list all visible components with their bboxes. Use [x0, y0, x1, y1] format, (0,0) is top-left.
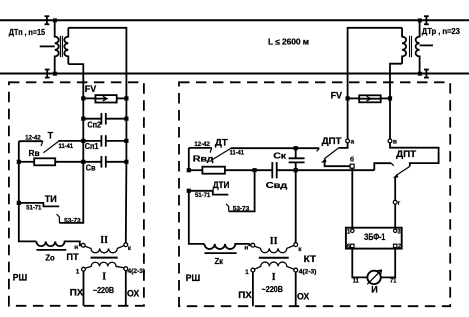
junction dot DTr bottom rail: [418, 72, 422, 76]
contact DPT right arm: [396, 166, 410, 175]
capacitor Sk: [289, 148, 305, 170]
svg-text:ТИ: ТИ: [45, 194, 57, 204]
wire left branch Rv to TI: [18, 162, 20, 203]
junction dot DTp bottom rail: [53, 72, 57, 76]
arrester FV right arrow: [359, 96, 381, 101]
transformer DTr center tap: [420, 44, 433, 46]
svg-text:ЗБФ-1: ЗБФ-1: [364, 232, 385, 242]
junction dot DTp top rail: [53, 18, 57, 22]
wire arm to g terminal: [394, 178, 396, 201]
wire Svd row jog to DPT right fixed: [374, 163, 391, 170]
wire left column Sp2 to Sp1: [82, 119, 84, 141]
svg-text:~220В: ~220В: [262, 285, 284, 294]
wire FV right row right: [381, 97, 390, 99]
svg-text:ПТ: ПТ: [66, 252, 79, 262]
transformer PT winding I: [85, 262, 124, 268]
svg-text:II: II: [100, 235, 108, 246]
transformer KT terminal n: [251, 243, 255, 247]
insulated joint left bottom: [45, 69, 50, 78]
wire left branch TI to Zo: [19, 203, 37, 242]
arrester FV left box: [95, 95, 116, 102]
wire DTr secondary top to left column: [348, 28, 403, 99]
svg-text:11: 11: [353, 279, 360, 285]
contact DPT right common route: [390, 143, 439, 167]
svg-text:ПХ: ПХ: [70, 288, 83, 298]
svg-text:КТ: КТ: [304, 254, 317, 264]
rail bottom: [0, 73, 469, 75]
svg-text:ОХ: ОХ: [297, 292, 309, 302]
contact TI arm: [19, 203, 59, 207]
svg-text:12-42: 12-42: [194, 142, 210, 148]
junction dot Rvd left: [187, 168, 191, 172]
wire PT k to Sv row: [125, 162, 128, 243]
contact T wire left: [19, 140, 43, 142]
svg-text:11-41: 11-41: [59, 144, 74, 150]
junction dot DTr top rail: [418, 18, 422, 22]
wire left branch T to Rv: [18, 141, 20, 162]
contact DT fixed tip: [210, 148, 212, 153]
junction dot Sp1 left: [81, 139, 85, 143]
transformer KT core: [259, 257, 289, 259]
svg-text:Св: Св: [86, 163, 96, 172]
wire DTp secondary top to right column: [68, 28, 126, 99]
insulated joint right top: [424, 16, 429, 25]
wire TI lower terminal to Sv row: [59, 164, 83, 223]
transformer DTp core: [60, 36, 62, 57]
ZBF terminal 1 circle: [351, 229, 354, 232]
capacitor Sp2: [83, 113, 126, 125]
transformer PT winding II: [85, 246, 124, 253]
svg-text:И: И: [371, 285, 377, 295]
transformer PT core: [91, 257, 118, 259]
transformer KT terminal 1: [251, 268, 255, 272]
contact DT arm: [212, 148, 231, 159]
wire left branch DTI to Zk: [189, 191, 205, 244]
wire left column FV to Sp2: [82, 98, 84, 118]
svg-text:51-71: 51-71: [26, 206, 42, 212]
enclosure RSh left (dashed): [9, 82, 144, 305]
contact DTI junction dot: [187, 189, 191, 193]
capacitor Svd: [272, 162, 374, 178]
resistor Rv: [19, 158, 58, 165]
insulated joint left top: [45, 16, 50, 25]
junction dot Svd right: [294, 168, 298, 172]
svg-text:~220В: ~220В: [93, 286, 114, 295]
svg-text:1: 1: [245, 269, 249, 276]
transformer DTp primary winding: [55, 20, 59, 73]
contact DPT left arm: [324, 148, 339, 159]
wire b column to ZBF: [351, 168, 353, 228]
svg-text:Rвд: Rвд: [193, 155, 214, 164]
svg-text:71: 71: [390, 279, 397, 285]
svg-text:ДПТ: ДПТ: [396, 149, 416, 159]
wire right column Sp2 to Sp1: [125, 119, 127, 141]
ZBF terminal 3 circle: [394, 229, 397, 232]
svg-text:г: г: [398, 200, 401, 207]
svg-text:ДТр , n=23: ДТр , n=23: [422, 27, 461, 36]
svg-text:ДТИ: ДТИ: [213, 180, 230, 190]
junction dot Svd left: [253, 168, 257, 172]
svg-text:ПХ: ПХ: [238, 290, 251, 300]
svg-text:Rв: Rв: [29, 149, 40, 158]
junction dot Sp2 right: [124, 117, 128, 121]
arrester FV right box: [359, 95, 381, 102]
capacitor Sv: [55, 156, 126, 168]
svg-text:FV: FV: [331, 90, 342, 100]
terminal a circle: [346, 139, 350, 143]
svg-text:Zо: Zо: [45, 254, 55, 263]
transformer DTr core: [410, 36, 412, 57]
svg-text:1: 1: [76, 268, 80, 275]
junction dot FV row right: [124, 96, 128, 100]
junction dot Sv right: [124, 160, 128, 164]
svg-text:б: б: [350, 156, 354, 164]
svg-text:FV: FV: [85, 84, 96, 94]
contact DPT right fixed tip: [391, 163, 394, 166]
transformer PT terminal 1: [82, 267, 86, 271]
inductor Zo core line: [36, 249, 66, 251]
transformer DTp secondary winding: [64, 28, 68, 64]
transformer DTp center tap: [40, 45, 55, 47]
ZBF terminal 2 square: [394, 244, 397, 247]
indicator lamp arrow: [367, 270, 381, 284]
transformer PT terminal 4: [124, 267, 128, 271]
indicator lamp I circle: [367, 271, 380, 284]
wire PX right: [252, 272, 254, 306]
wire DTr secondary bottom to right column: [390, 64, 402, 99]
junction dot Sp2 left: [81, 117, 85, 121]
contact DPT left fixed tip: [317, 148, 320, 151]
contact DTI arm: [189, 191, 229, 195]
svg-text:Свд: Свд: [266, 181, 288, 190]
svg-text:II: II: [270, 236, 278, 247]
junction dot Sv left: [81, 160, 85, 164]
wire left branch DT to Rvd: [188, 148, 190, 170]
contact T fixed tip: [41, 141, 43, 146]
inductor Zk: [204, 244, 250, 249]
rail top: [0, 19, 469, 21]
wire KT k up to Svd row: [295, 170, 297, 243]
transformer PT terminal k: [124, 243, 128, 247]
transformer KT winding II: [255, 246, 294, 253]
contact T arm: [43, 141, 58, 152]
terminal b square: [350, 164, 354, 168]
inductor Zk core line: [204, 252, 236, 254]
contact DPT left common route: [339, 143, 348, 148]
wire right column Sp1 to Sv: [125, 141, 127, 162]
svg-text:L ≤ 2600 м: L ≤ 2600 м: [268, 37, 309, 46]
svg-text:ДТ: ДТ: [215, 138, 228, 148]
svg-text:Сп2: Сп2: [87, 121, 101, 130]
wire PX left: [83, 271, 85, 306]
svg-text:в: в: [393, 139, 397, 146]
contact TI fixed tip: [57, 214, 60, 223]
svg-text:Zк: Zк: [215, 257, 224, 266]
transformer KT terminal 4: [294, 268, 298, 272]
wire ZBF 2 to lamp: [381, 248, 395, 278]
svg-text:а: а: [351, 139, 355, 146]
svg-text:12-42: 12-42: [25, 136, 41, 142]
transformer KT winding I: [255, 262, 294, 269]
junction dot Sp1 right: [124, 139, 128, 143]
transformer DTr primary winding: [416, 20, 420, 73]
contact DPT left arrowhead: [321, 158, 327, 162]
filter block ZBF-1: [346, 228, 402, 249]
wire column a down to DPT: [347, 98, 349, 139]
wire FV row left: [83, 97, 95, 99]
enclosure RSh right (dashed): [179, 82, 450, 306]
svg-text:к: к: [298, 246, 302, 253]
wire OX right: [295, 272, 297, 306]
wire OX left: [125, 271, 127, 306]
svg-text:РШ: РШ: [186, 273, 200, 283]
svg-text:н: н: [244, 245, 248, 252]
ZBF terminal 6 square: [351, 244, 354, 247]
svg-text:Т: Т: [48, 131, 54, 141]
svg-text:Ск: Ск: [273, 151, 286, 160]
contact DPT right arrowhead: [393, 174, 399, 178]
wire FV row right: [117, 97, 127, 99]
insulated joint right bottom: [424, 69, 429, 78]
wire DTI lower terminal to Svd row: [229, 172, 255, 211]
transformer DTr secondary winding: [402, 28, 406, 64]
inductor Zo: [36, 241, 81, 246]
junction dot FV row left: [81, 96, 85, 100]
svg-text:I: I: [272, 272, 276, 283]
svg-text:4(2-3): 4(2-3): [299, 269, 317, 275]
junction dot Sk top: [294, 146, 298, 150]
svg-text:ОХ: ОХ: [127, 288, 139, 298]
svg-text:к: к: [128, 245, 132, 252]
wire b to closed contact: [325, 162, 351, 167]
wire left column Sp1 to Sv: [82, 141, 84, 162]
svg-text:51-71: 51-71: [195, 193, 211, 199]
contact DT wire left: [189, 147, 212, 149]
wire DTp secondary bottom to left column: [68, 64, 83, 98]
wire 11-41 row to DPT: [231, 147, 319, 149]
svg-text:ДПТ: ДПТ: [322, 136, 342, 146]
transformer PT terminal n: [81, 243, 85, 247]
svg-text:11-41: 11-41: [230, 151, 245, 157]
transformer KT terminal k: [294, 243, 298, 247]
svg-text:I: I: [102, 272, 106, 283]
contact DTI fixed tip: [226, 204, 229, 212]
wire column v down to DPT: [389, 98, 391, 139]
terminal v circle: [388, 139, 392, 143]
junction dot Rv left: [17, 160, 21, 164]
junction dot TI: [17, 201, 21, 205]
wire ZBF 6 to lamp: [352, 248, 367, 278]
capacitor Sp1: [58, 135, 126, 147]
wire right column FV to Sp2: [125, 98, 127, 118]
junction dot FV right right: [388, 96, 392, 100]
junction dot FV right left: [346, 96, 350, 100]
svg-text:4(2-3): 4(2-3): [127, 269, 145, 275]
svg-text:ДТп , n=15: ДТп , n=15: [9, 28, 46, 37]
wire g to ZBF: [394, 204, 396, 228]
wire FV right row left: [348, 97, 360, 99]
svg-text:РШ: РШ: [13, 273, 27, 283]
resistor Rvd: [189, 167, 272, 174]
svg-text:н: н: [74, 244, 78, 251]
arrester FV left arrow: [95, 96, 107, 101]
terminal g circle: [393, 200, 397, 204]
svg-text:Сп1: Сп1: [85, 142, 99, 151]
